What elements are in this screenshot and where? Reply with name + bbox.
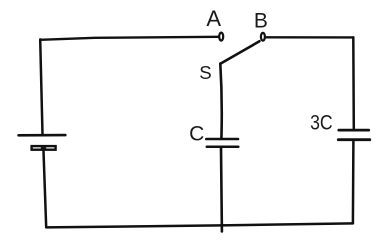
- svg-text:S: S: [199, 62, 211, 83]
- node A: switch contact circle: [219, 33, 223, 41]
- wire middle vertical: capacitor C bottom plate to bottom wire junction: [220, 148, 223, 232]
- svg-text:A: A: [206, 6, 221, 31]
- wire left vertical: top corner down to battery: [40, 39, 42, 134]
- wire top-right: contact B to top-right corner: [266, 36, 353, 39]
- capacitor 3C bottom plate: [338, 138, 370, 141]
- svg-text:C: C: [189, 122, 204, 145]
- capacitor C bottom plate: [207, 145, 239, 148]
- battery V1 negative plate inner pen mark: [42, 147, 46, 149]
- wire bottom: bottom-left corner to bottom-right corner: [46, 223, 353, 227]
- battery V1 long plate (positive terminal): [19, 134, 66, 137]
- wire right vertical: top-right corner down to capacitor 3C: [352, 37, 355, 129]
- wire top-left: battery positive to contact A: [40, 37, 218, 40]
- switch S pole wire: pivot down to capacitor C: [220, 64, 221, 139]
- capacitor 3C top plate: [339, 129, 369, 132]
- battery V1 short thick plate (negative terminal): [32, 146, 56, 150]
- node B: switch contact circle: [261, 33, 265, 41]
- capacitor C top plate: [206, 138, 238, 141]
- wire right vertical: capacitor 3C down to bottom-right corner: [352, 141, 355, 223]
- svg-text:B: B: [254, 10, 268, 33]
- switch S lever: from contact B to pivot: [220, 41, 259, 64]
- wire left vertical: battery down to bottom-left corner: [44, 151, 47, 227]
- svg-text:3C: 3C: [310, 112, 333, 135]
